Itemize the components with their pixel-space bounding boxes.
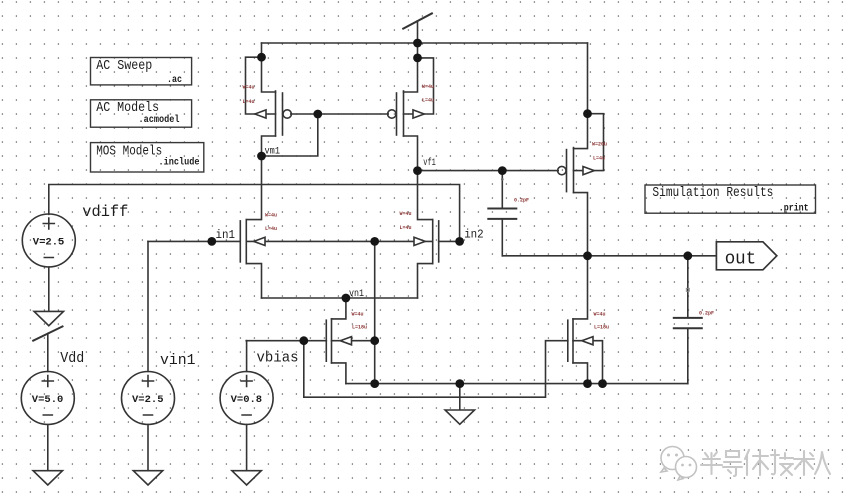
svg-text:Simulation Results: Simulation Results <box>652 186 773 201</box>
svg-text:V=2.5: V=2.5 <box>33 238 64 249</box>
svg-text:L=18u: L=18u <box>352 325 367 331</box>
svg-text:vf1: vf1 <box>423 157 436 169</box>
node vn1 <box>342 294 351 303</box>
voltage source Vdd <box>21 372 74 471</box>
svg-text:in2: in2 <box>464 228 484 242</box>
watermark logo <box>661 447 697 481</box>
wire vm1 diode link <box>262 114 318 156</box>
wire vf1 to P3 gate <box>418 170 559 172</box>
junction Q6 bulk <box>370 336 379 345</box>
junction C2 top / out <box>683 251 692 260</box>
junction Q7 bulk <box>598 379 607 388</box>
svg-text:W=4u: W=4u <box>594 312 606 318</box>
pin end C1 <box>501 178 504 181</box>
transistor Q6 NMOS tail current source <box>246 298 375 384</box>
svg-text:out: out <box>725 248 757 269</box>
text box AC Sweep <box>91 58 192 86</box>
transistor Q3 PMOS output stage <box>558 43 604 256</box>
transistor Q5 NMOS diff pair right <box>375 171 460 298</box>
svg-text:vin1: vin1 <box>160 353 196 369</box>
svg-text:.include: .include <box>159 156 200 168</box>
node vbias junction <box>299 336 308 345</box>
watermark text 半导体技术人 <box>701 450 830 476</box>
svg-text:L=18u: L=18u <box>594 325 609 331</box>
svg-text:W=4u: W=4u <box>422 84 434 90</box>
wire top Vdd rail <box>262 42 588 44</box>
node in2 <box>455 237 464 246</box>
svg-text:L=4u: L=4u <box>265 226 277 232</box>
voltage source vbias <box>220 341 273 471</box>
junction ground rail gnd <box>455 379 464 388</box>
svg-text:vm1: vm1 <box>265 146 281 158</box>
junction mirror gates <box>313 110 322 119</box>
transistor Q7 NMOS output stage <box>568 256 603 384</box>
svg-text:.acmodel: .acmodel <box>139 114 180 126</box>
junction Q7 source <box>583 379 592 388</box>
ground below vdiff <box>34 311 63 325</box>
svg-text:L=4u: L=4u <box>400 225 412 231</box>
svg-text:W=4u: W=4u <box>400 211 412 217</box>
svg-text:L=4u: L=4u <box>422 98 434 104</box>
wire vn1 rail <box>262 297 418 299</box>
text box AC Models <box>91 100 192 127</box>
transistor Q1 PMOS left mirror <box>246 43 318 156</box>
junction Q2 source/bulk <box>413 54 422 63</box>
junction Q3 source/bulk <box>583 109 592 118</box>
svg-text:Vdd: Vdd <box>60 351 84 367</box>
svg-text:W=4u: W=4u <box>265 213 277 219</box>
junction Q1 source/bulk <box>257 53 266 62</box>
svg-text:MOS Models: MOS Models <box>96 145 162 160</box>
voltage source vin1 <box>122 241 175 470</box>
wire vbias link low <box>304 341 568 398</box>
wire bottom ground rail <box>346 383 688 385</box>
output pin out <box>716 242 776 270</box>
svg-text:AC Sweep: AC Sweep <box>96 59 152 74</box>
node vf1 <box>413 166 422 175</box>
vdd rail symbol (slash) left <box>33 326 62 371</box>
svg-text:vbias: vbias <box>257 350 299 366</box>
wire vdiff to in2 <box>49 185 460 242</box>
text box MOS Models <box>91 143 204 172</box>
transistor Q4 NMOS diff pair left <box>148 156 375 298</box>
transistor Q2 PMOS right mirror <box>318 43 434 171</box>
junction diff-pair bulks <box>370 237 379 246</box>
junction out drains <box>583 251 592 260</box>
svg-text:L=4u: L=4u <box>593 156 605 162</box>
capacitor C2 load 0.2pF <box>674 256 702 384</box>
junction Vdd rail stem <box>413 39 422 48</box>
svg-text:L=4u: L=4u <box>243 99 255 105</box>
svg-text:0.2pF: 0.2pF <box>514 197 529 203</box>
svg-text:vdiff: vdiff <box>82 203 128 221</box>
ground on bottom rail <box>445 384 474 425</box>
svg-text:W=20u: W=20u <box>592 142 607 148</box>
node in1 <box>207 237 216 246</box>
wire out line <box>502 255 716 257</box>
ground below vbias <box>232 471 261 485</box>
junction bulk to ground rail <box>370 379 379 388</box>
ground below vin1 <box>133 471 162 485</box>
svg-text:.print: .print <box>779 203 809 215</box>
capacitor C1 compensation 0.2pF <box>488 171 516 256</box>
svg-text:V=0.8: V=0.8 <box>231 395 263 406</box>
svg-text:W=4u: W=4u <box>352 312 364 318</box>
svg-text:0.2pF: 0.2pF <box>699 311 714 317</box>
junction C1 top <box>498 166 507 175</box>
svg-text:V=2.5: V=2.5 <box>132 395 164 406</box>
wire diff-pair bulk drop <box>374 241 376 383</box>
vdd rail symbol (slash) top center <box>403 13 432 43</box>
svg-text:in1: in1 <box>216 228 236 242</box>
node vm1 <box>257 152 266 161</box>
voltage source vdiff <box>22 214 75 311</box>
text box Simulation Results <box>645 185 816 215</box>
ground below Vdd <box>33 471 62 485</box>
svg-text:W=4u: W=4u <box>243 85 255 91</box>
svg-text:vn1: vn1 <box>349 288 364 300</box>
svg-text:V=5.0: V=5.0 <box>32 395 63 406</box>
svg-text:.ac: .ac <box>167 74 182 86</box>
